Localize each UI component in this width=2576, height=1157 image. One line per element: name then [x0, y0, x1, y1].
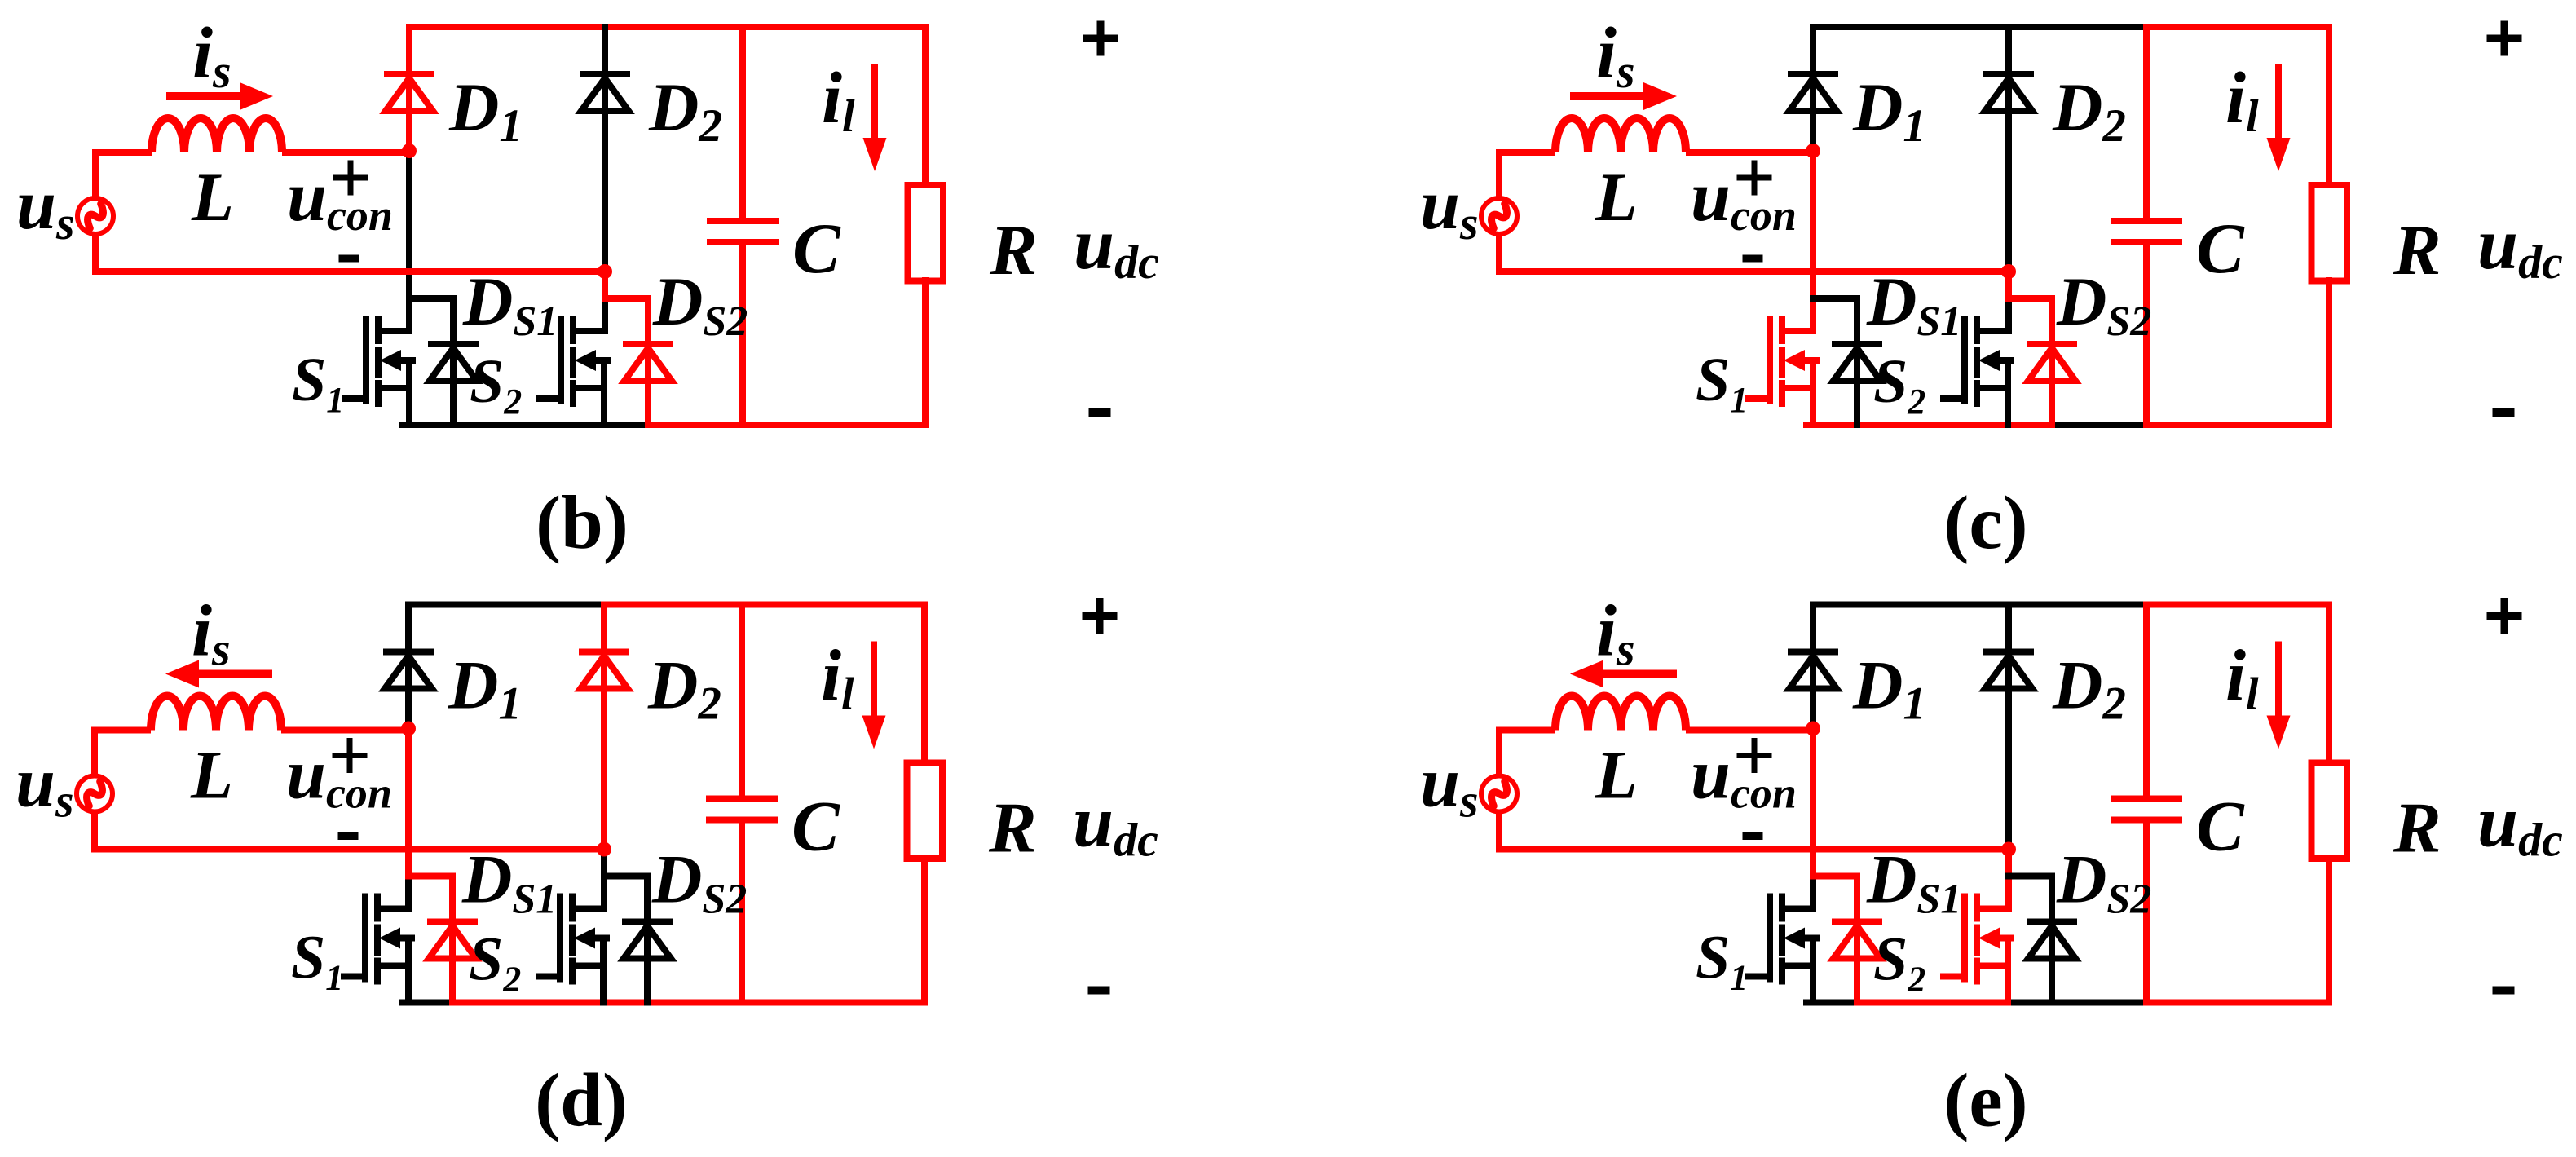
svg-text:C: C — [792, 788, 840, 867]
svg-text:R: R — [989, 211, 1038, 290]
svg-text:(c): (c) — [1943, 481, 2027, 565]
svg-text:(d): (d) — [535, 1059, 628, 1143]
svg-text:R: R — [988, 789, 1037, 868]
svg-text:R: R — [2393, 211, 2441, 290]
svg-text:(e): (e) — [1943, 1059, 2027, 1143]
svg-text:L: L — [191, 159, 234, 236]
svg-text:L: L — [1595, 737, 1638, 814]
svg-text:L: L — [1595, 159, 1638, 236]
svg-text:L: L — [190, 737, 233, 814]
svg-text:C: C — [2196, 788, 2245, 867]
svg-text:C: C — [2196, 210, 2245, 289]
svg-text:C: C — [792, 210, 841, 289]
svg-text:R: R — [2393, 789, 2441, 868]
svg-text:(b): (b) — [536, 481, 629, 565]
